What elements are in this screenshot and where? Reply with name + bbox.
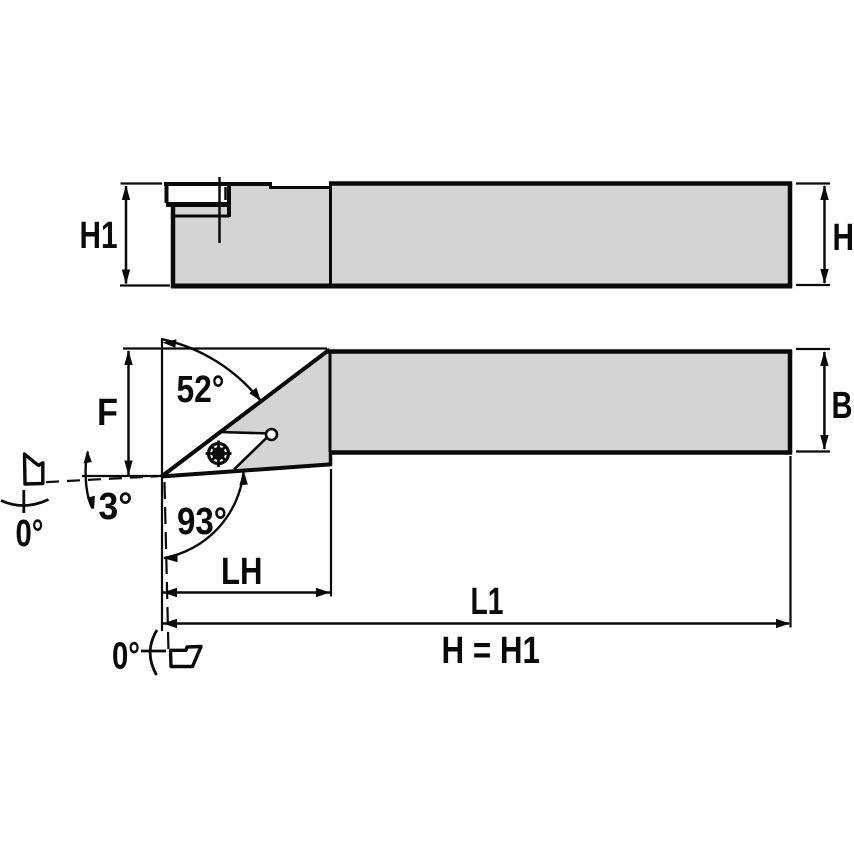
52 degree arc end arrow [249, 388, 261, 402]
front view insert white body [162, 432, 271, 476]
top view bottom edge [171, 284, 792, 289]
svg-text:H1: H1 [80, 215, 118, 257]
dimension B line [823, 352, 826, 449]
front view head fill [162, 350, 331, 476]
dimension H1 top extension line [121, 182, 163, 184]
side rake workpiece symbol [25, 454, 43, 484]
tip horizontal reference line [82, 475, 162, 477]
front view head-shank divider [329, 352, 332, 452]
top view left edge lower [171, 202, 176, 288]
dimension L1 right arrow [776, 619, 790, 629]
front view shank top edge [327, 349, 792, 354]
dimension H1 bottom arrow [122, 270, 130, 285]
insert screw cross vertical [217, 441, 220, 468]
dimension B bottom extension line [796, 450, 830, 452]
front view right edge [788, 352, 793, 453]
insert top edge [219, 432, 271, 434]
dimension L1 line [163, 622, 789, 625]
dimension H top extension line [796, 182, 830, 184]
svg-text:LH: LH [221, 551, 263, 593]
dimension LH line [163, 591, 330, 594]
dimension L1 right extension line [789, 456, 791, 628]
dimension F line [127, 351, 130, 475]
front view head bottom edge [161, 464, 332, 476]
svg-text:H = H1: H = H1 [442, 630, 541, 672]
top view pocket second line [173, 215, 229, 218]
top view shank divider line [329, 185, 332, 286]
top view right edge [788, 184, 793, 287]
3 degree angle arc [86, 452, 93, 509]
top view shank top edge [329, 181, 792, 186]
insert corner hole circle [266, 429, 277, 440]
top view stepped top edge [269, 186, 331, 189]
back rake zero tick [141, 650, 166, 653]
top view tool body fill [167, 184, 791, 287]
dimension L1 left arrow [163, 619, 177, 629]
front view shank fill [330, 350, 790, 453]
vertical extension line above tip [161, 338, 163, 476]
3 degree arc bottom arrow [87, 496, 95, 510]
svg-text:L1: L1 [471, 581, 504, 623]
svg-text:0°: 0° [16, 513, 44, 555]
back rake workpiece symbol [171, 647, 202, 667]
52 degree arc left arrow [163, 339, 177, 348]
insert screw cross horizontal [206, 452, 232, 455]
dimension F bottom arrow [124, 461, 132, 476]
side rake zero arc [1, 500, 49, 506]
top view left edge upper [165, 182, 169, 203]
svg-text:93°: 93° [177, 501, 227, 543]
back rake zero arc [150, 630, 157, 675]
top view head top edge [164, 182, 272, 186]
3 degree arc top arrow [84, 451, 92, 464]
svg-text:F: F [97, 392, 118, 434]
93 degree arc top arrow [239, 471, 247, 486]
top view pocket bottom line [166, 202, 231, 207]
dimension B bottom arrow [820, 435, 828, 450]
vertical extension line below tip [161, 476, 163, 631]
dimension LH left arrow [163, 588, 177, 598]
dimension B top arrow [820, 351, 828, 366]
top view screw centerline [218, 177, 221, 243]
svg-text:52°: 52° [177, 369, 225, 411]
dimension H1 line [125, 186, 128, 284]
front view shank bottom edge [330, 450, 792, 455]
svg-text:0°: 0° [112, 636, 140, 678]
dimension H top arrow [820, 185, 828, 200]
clearance 3 degree dashed line [46, 476, 158, 482]
dimension LH right arrow [316, 588, 330, 598]
93 degree arc bottom arrow [163, 554, 178, 562]
top view pocket right edge [227, 185, 231, 217]
side rake zero tick [22, 490, 25, 513]
dimension H bottom extension line [796, 284, 830, 286]
svg-text:B: B [832, 385, 853, 427]
dimension H bottom arrow [820, 269, 828, 284]
dimension F top arrow [124, 350, 132, 365]
top view insert pocket white notch [167, 186, 228, 203]
insert screw head circle [209, 444, 229, 464]
svg-text:H: H [833, 217, 854, 259]
dimension H1 top arrow [122, 185, 130, 200]
dimension F extension line top [123, 347, 327, 349]
insert screw inner circle [213, 448, 223, 458]
93 degree angle arc [164, 473, 244, 559]
front view heel step [329, 451, 333, 465]
svg-text:3°: 3° [99, 486, 133, 528]
dimension H1 bottom extension line [120, 284, 170, 286]
dimension LH right extension line [330, 469, 332, 597]
dash-dot centerline below tip [165, 482, 169, 652]
52 degree angle arc [162, 339, 261, 401]
insert screw spokes [212, 447, 225, 460]
dimension B top extension line [796, 348, 830, 350]
dimension H line [823, 186, 826, 283]
insert right edge [234, 434, 271, 470]
top view insert edge line [224, 187, 227, 200]
front view hypotenuse cutting edge [162, 350, 330, 477]
